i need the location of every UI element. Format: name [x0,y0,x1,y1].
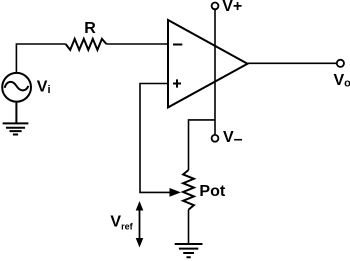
wiper arrowhead [170,188,182,197]
ground under pot [175,244,203,257]
sine wave inside source [5,82,29,91]
V- terminal circle [212,135,219,142]
wire resistor to op-amp inverting input [106,43,168,45]
op-amp U1 triangle [168,20,248,107]
voltage source V_i [2,73,31,102]
svg-text:R: R [84,20,96,37]
V+ terminal circle [212,3,219,10]
V_o terminal circle [337,60,344,67]
plus sign at non-inverting input [173,79,181,87]
pot bottom lead wire [188,210,190,243]
resistor R [66,39,107,50]
svg-text:Vref: Vref [110,213,133,231]
svg-text:Vi: Vi [37,79,51,96]
output wire [248,62,337,64]
svg-text:V+: V+ [222,0,242,15]
potentiometer Pot zigzag [183,170,194,210]
minus sign at inverting input [173,44,182,46]
wire V+ through op-amp to V- [214,9,216,134]
svg-text:Vo: Vo [334,72,350,89]
V_ref measurement double arrow [136,201,144,248]
wire source top to corner and to resistor [16,44,65,72]
wire non-inverting input down to wiper arrow [140,84,172,193]
svg-text:Pot: Pot [199,183,225,200]
ground under source [3,103,29,135]
svg-text:V–: V– [223,129,243,148]
wire V- tap to potentiometer top [189,120,216,170]
